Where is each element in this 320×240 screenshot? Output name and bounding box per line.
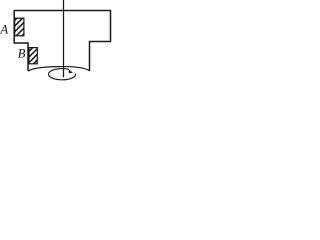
svg-text:B: B — [18, 46, 26, 60]
svg-text:A: A — [0, 23, 9, 37]
